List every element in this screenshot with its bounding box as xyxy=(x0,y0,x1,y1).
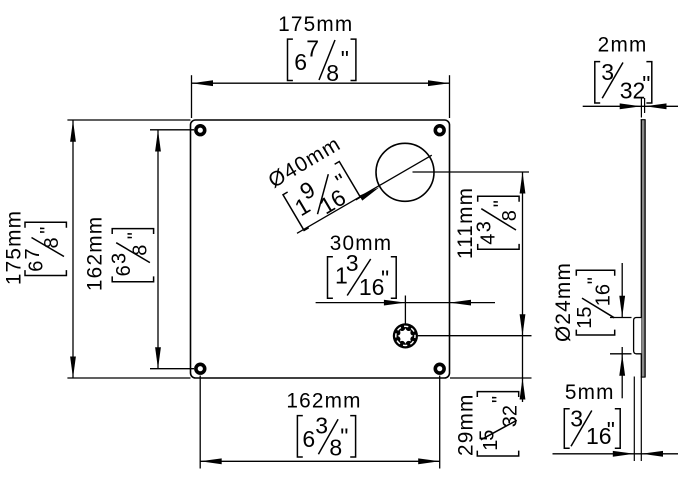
svg-text:7: 7 xyxy=(22,248,44,259)
svg-text:": " xyxy=(341,46,349,72)
svg-text:8: 8 xyxy=(130,245,152,256)
svg-text:162mm: 162mm xyxy=(83,216,106,291)
svg-text:8: 8 xyxy=(326,60,339,86)
svg-text:5mm: 5mm xyxy=(565,381,615,404)
arrow 162-top xyxy=(155,130,161,152)
svg-text:3: 3 xyxy=(315,413,328,439)
label 1-5/32in xyxy=(477,392,522,456)
arrow 30mm-left xyxy=(384,300,406,306)
arrow bottom-left xyxy=(200,458,222,464)
dim line left 175mm xyxy=(72,120,74,378)
svg-text:8: 8 xyxy=(499,210,521,221)
svg-text:4: 4 xyxy=(478,234,500,245)
svg-text:3: 3 xyxy=(570,405,583,431)
arrow top-right xyxy=(428,80,450,86)
arrow 30mm-right xyxy=(450,300,472,306)
label 15/16in xyxy=(574,270,615,335)
arrow D24-bottom xyxy=(619,354,625,376)
svg-text:32: 32 xyxy=(500,405,522,427)
svg-text:": " xyxy=(381,266,389,292)
dim line D24 lower xyxy=(621,347,623,398)
extension line 5mm-right xyxy=(640,377,642,461)
dim line 111/29 xyxy=(522,172,524,402)
dim line top 175mm xyxy=(192,82,450,84)
corner hole bottom-right xyxy=(435,364,444,373)
svg-text:8: 8 xyxy=(41,237,63,248)
svg-text:2mm: 2mm xyxy=(598,34,648,57)
extension line 5mm-left xyxy=(633,377,635,462)
extension line D24-top xyxy=(610,317,632,319)
svg-text:3: 3 xyxy=(474,221,496,232)
dim line left 162mm xyxy=(157,130,159,369)
extension line D24-bottom xyxy=(610,353,632,355)
arrow 5mm-right xyxy=(642,451,664,457)
svg-text:16: 16 xyxy=(593,284,615,306)
extension line top-right xyxy=(449,75,451,118)
svg-text:6: 6 xyxy=(26,261,48,272)
dim line bottom 162mm xyxy=(200,460,440,462)
arrow D24-top xyxy=(619,296,625,318)
corner hole top-left xyxy=(196,126,205,135)
extension line 111-top xyxy=(413,171,530,173)
arrow 5mm-left xyxy=(613,451,635,457)
svg-text:175mm: 175mm xyxy=(3,210,26,285)
extension line left-bottom xyxy=(67,377,190,379)
svg-text:": " xyxy=(37,227,59,234)
dim line 2mm xyxy=(583,105,678,107)
label 6-7/8in left xyxy=(22,222,66,275)
svg-text:": " xyxy=(585,277,607,284)
svg-text:7: 7 xyxy=(306,36,319,62)
svg-text:6: 6 xyxy=(113,265,135,276)
label 4-3/8in xyxy=(474,196,521,249)
extension line 162-top xyxy=(150,129,194,131)
plate outline xyxy=(191,120,450,378)
label 3/16in xyxy=(564,405,620,449)
extension line 2mm-right xyxy=(644,98,646,113)
svg-text:": " xyxy=(607,417,615,443)
extension line 162-bottom xyxy=(150,368,194,370)
svg-text:Ø24mm: Ø24mm xyxy=(552,262,575,342)
svg-text:6: 6 xyxy=(302,426,315,452)
extension line 30mm hole-center xyxy=(404,296,406,325)
arrow 111-bottom xyxy=(520,314,526,336)
svg-text:3: 3 xyxy=(109,253,131,264)
svg-text:": " xyxy=(490,200,512,207)
svg-text:": " xyxy=(340,424,348,450)
arrow 2mm-right xyxy=(645,103,667,109)
arrow 29-bottom xyxy=(520,378,526,400)
spline hole xyxy=(393,323,418,348)
arrow 111-top xyxy=(520,172,526,194)
arrow left-bottom xyxy=(70,357,76,379)
svg-text:30mm: 30mm xyxy=(330,232,393,255)
dim line 5mm xyxy=(553,453,678,455)
svg-text:": " xyxy=(125,232,147,239)
label 1-9/16in xyxy=(281,158,362,233)
extension line top-left xyxy=(191,75,193,118)
corner hole bottom-left xyxy=(196,364,205,373)
label 6-3/8in left xyxy=(109,229,154,282)
extension line 111-bottom xyxy=(418,335,532,337)
corner hole top-right xyxy=(435,126,444,135)
svg-text:": " xyxy=(489,396,511,403)
label 6-7/8in top xyxy=(288,36,356,86)
large circle D40 xyxy=(376,143,434,201)
arrow 162-bottom xyxy=(155,347,161,369)
svg-text:3: 3 xyxy=(346,250,359,276)
leader arrow D40 xyxy=(359,185,381,201)
svg-text:29mm: 29mm xyxy=(454,393,477,456)
svg-text:": " xyxy=(642,71,650,97)
leader line D40 xyxy=(297,155,432,233)
svg-text:6: 6 xyxy=(294,49,307,75)
side boss xyxy=(634,318,642,354)
svg-text:15: 15 xyxy=(574,307,596,329)
label 1-3/16in xyxy=(328,250,397,300)
arrow top-left xyxy=(192,80,214,86)
label 6-3/8in bottom xyxy=(297,413,355,461)
side plate section xyxy=(641,119,646,377)
label 3/32in xyxy=(595,59,652,103)
arrow left-top xyxy=(70,120,76,142)
svg-text:162mm: 162mm xyxy=(286,390,361,413)
dim line 30mm xyxy=(316,302,495,304)
arrow 2mm-left xyxy=(620,103,642,109)
extension line bottom-right xyxy=(439,376,441,469)
extension line 2mm-left xyxy=(640,98,642,118)
extension line left-top xyxy=(67,119,190,121)
label D40mm xyxy=(264,132,345,193)
arrow bottom-right xyxy=(418,458,440,464)
extension line bottom-left xyxy=(199,376,201,469)
extension line 29-bottom xyxy=(450,377,532,379)
dim line D24 upper xyxy=(621,263,623,317)
svg-text:175mm: 175mm xyxy=(278,13,353,36)
